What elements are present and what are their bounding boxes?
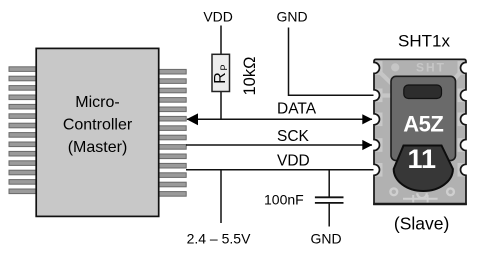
svg-text:VDD: VDD [203, 9, 233, 25]
svg-text:11: 11 [408, 144, 437, 174]
svg-text:SCK: SCK [277, 128, 310, 145]
svg-text:A5Z: A5Z [403, 112, 443, 137]
svg-text:10kΩ: 10kΩ [241, 57, 259, 96]
svg-text:SHT: SHT [416, 61, 446, 75]
svg-text:SHT1x: SHT1x [398, 32, 450, 51]
svg-text:DATA: DATA [277, 101, 317, 118]
svg-text:100nF: 100nF [264, 191, 304, 207]
svg-text:VDD: VDD [277, 152, 310, 169]
svg-text:(Slave): (Slave) [394, 214, 449, 234]
svg-text:Micro-: Micro- [75, 94, 119, 111]
svg-text:GND: GND [276, 9, 307, 25]
svg-text:2.4 – 5.5V: 2.4 – 5.5V [187, 231, 251, 247]
svg-text:GND: GND [310, 231, 341, 247]
svg-text:Controller: Controller [63, 117, 133, 134]
svg-text:(Master): (Master) [68, 139, 128, 156]
